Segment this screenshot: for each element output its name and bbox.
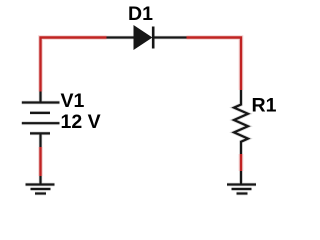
battery V1 [22,92,60,148]
svg-text:D1: D1 [128,3,153,25]
wire: D1 cathode across and down to R1 top [187,38,242,91]
resistor R1 [234,90,248,154]
diode D1 (anode lead, triangle, cathode bar, cathode lead) [107,26,187,49]
wire: R1 bottom down to right ground [239,154,244,171]
ground (left, under V1) [26,176,55,194]
wire: V1 positive terminal up and across to D1 anode [41,38,107,92]
svg-text:V1: V1 [61,90,85,112]
wire: V1 negative terminal down to left ground [38,147,43,176]
svg-text:R1: R1 [252,94,277,116]
svg-text:12 V: 12 V [61,111,101,133]
ground (right, under R1) [227,171,256,194]
